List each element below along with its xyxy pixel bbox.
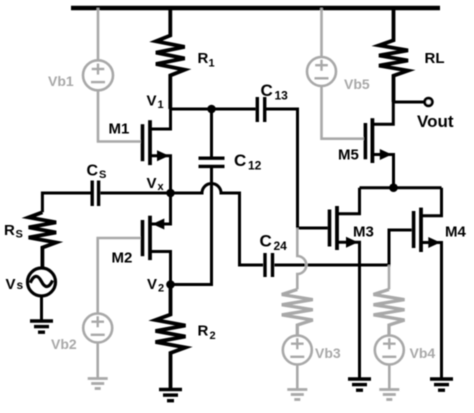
source Vb1 xyxy=(83,60,113,90)
label V2 xyxy=(147,276,164,295)
wire V1 node down to C12 xyxy=(210,109,213,157)
svg-text:1: 1 xyxy=(158,99,164,111)
label M5 xyxy=(338,147,359,164)
wire Cs to node Vx xyxy=(101,192,171,195)
svg-text:M2: M2 xyxy=(112,250,133,267)
power rail xyxy=(71,6,440,11)
label C24 xyxy=(260,232,288,254)
wire Vb1 to M1 gate xyxy=(98,91,141,142)
resistor (Vb3 bias) xyxy=(282,289,313,335)
wire C24 to M4 gate xyxy=(275,230,412,265)
svg-text:2: 2 xyxy=(210,330,216,342)
svg-text:x: x xyxy=(158,181,165,193)
wire Vout xyxy=(393,101,425,104)
label Vb3 xyxy=(315,345,341,361)
ground (R2) xyxy=(159,390,182,401)
label C12 xyxy=(234,151,262,173)
wire Vb2 to ground xyxy=(96,343,99,379)
wire Cs to Rs xyxy=(42,193,91,212)
svg-text:12: 12 xyxy=(248,159,262,173)
svg-text:M4: M4 xyxy=(445,224,466,241)
resistor RL xyxy=(379,8,408,102)
svg-text:R: R xyxy=(198,50,209,67)
terminal Vout xyxy=(425,98,433,106)
svg-text:2: 2 xyxy=(158,283,164,295)
ground (Vb2) xyxy=(88,379,108,389)
capacitor Cs xyxy=(92,181,98,207)
wire V1 row left xyxy=(170,108,256,111)
svg-text:13: 13 xyxy=(275,89,289,103)
source Vb2 xyxy=(83,314,112,343)
wire Vb1 to rail xyxy=(97,8,100,61)
svg-text:Vb5: Vb5 xyxy=(344,76,370,92)
label M3 xyxy=(353,224,374,241)
ground (Vs) xyxy=(30,321,53,332)
wire Vb4 from M4 gate node xyxy=(388,265,391,289)
svg-text:C: C xyxy=(260,232,272,251)
node M5 source xyxy=(389,183,398,192)
label Vout xyxy=(417,112,454,131)
wire Vb3 to ground xyxy=(296,365,299,390)
label V1 xyxy=(147,93,164,112)
source Vb4 xyxy=(375,336,404,365)
label Vs xyxy=(6,276,24,293)
wire Vb2 to M2 gate xyxy=(98,238,141,314)
resistor Rs xyxy=(29,212,56,268)
wire Vb4 to ground xyxy=(388,365,391,390)
svg-text:24: 24 xyxy=(274,239,288,253)
label Rs xyxy=(4,222,23,241)
wire Vs to ground xyxy=(40,297,43,322)
resistor R2 xyxy=(156,285,186,390)
wire Vb5 to rail xyxy=(320,8,323,57)
label R2 xyxy=(198,323,216,343)
svg-text:S: S xyxy=(99,169,106,181)
svg-text:R: R xyxy=(198,323,209,340)
resistor R1 xyxy=(156,8,185,109)
label Vb1 xyxy=(48,73,74,89)
label Vb5 xyxy=(344,76,370,92)
svg-text:s: s xyxy=(17,278,24,292)
svg-text:V: V xyxy=(6,276,16,293)
wire Vx right with hop over C12 wire xyxy=(171,184,264,266)
transistor M3 xyxy=(330,188,360,379)
svg-text:V: V xyxy=(147,93,157,110)
label M2 xyxy=(112,250,133,267)
label Vb4 xyxy=(410,345,436,361)
transistor M1 xyxy=(143,109,171,193)
svg-text:Vb4: Vb4 xyxy=(410,345,436,361)
svg-text:C: C xyxy=(87,163,99,180)
label R1 xyxy=(198,50,215,70)
svg-text:C: C xyxy=(234,151,246,170)
svg-text:V: V xyxy=(147,175,157,192)
svg-text:Vout: Vout xyxy=(417,112,454,131)
wire Vb5 to M5 gate xyxy=(322,86,364,139)
svg-text:C: C xyxy=(261,81,273,100)
svg-text:V: V xyxy=(147,276,157,293)
source Vb3 xyxy=(283,336,312,365)
source Vs xyxy=(28,268,56,296)
svg-text:Vb2: Vb2 xyxy=(51,336,77,352)
label Cs xyxy=(87,163,107,182)
capacitor C24 xyxy=(265,253,273,277)
svg-text:1: 1 xyxy=(209,58,215,70)
ground (Vb3) xyxy=(287,390,307,400)
node V2 xyxy=(166,280,175,289)
svg-text:Vb3: Vb3 xyxy=(315,345,341,361)
label C13 xyxy=(261,81,289,103)
resistor (Vb4 bias) xyxy=(374,289,405,335)
label M4 xyxy=(445,224,466,241)
ground (M3) xyxy=(348,379,371,390)
transistor M2 xyxy=(143,193,171,285)
wire Vb3 with hop over C24 wire xyxy=(297,228,306,289)
svg-text:M1: M1 xyxy=(109,121,130,138)
label Vb2 xyxy=(51,336,77,352)
label Vx xyxy=(147,175,165,193)
transistor M5 xyxy=(365,102,393,188)
ground (Vb4) xyxy=(379,390,399,400)
wire C12 down to V2 row xyxy=(171,168,212,285)
svg-text:R: R xyxy=(4,222,15,239)
node Vx xyxy=(166,189,175,198)
label M1 xyxy=(109,121,130,138)
capacitor C12 xyxy=(199,158,225,166)
svg-text:M3: M3 xyxy=(353,224,374,241)
transistor M4 xyxy=(414,188,442,379)
wire node row M3/M4 drains xyxy=(360,186,442,189)
node V1 xyxy=(207,105,216,114)
svg-text:RL: RL xyxy=(425,50,445,67)
svg-text:Vb1: Vb1 xyxy=(48,73,74,89)
label RL xyxy=(425,50,445,67)
wire C13 to M3 gate xyxy=(266,109,328,228)
ground (M4) xyxy=(430,379,453,390)
svg-text:M5: M5 xyxy=(338,147,359,164)
source Vb5 xyxy=(307,57,336,86)
svg-text:S: S xyxy=(16,229,23,241)
capacitor C13 xyxy=(257,97,264,122)
